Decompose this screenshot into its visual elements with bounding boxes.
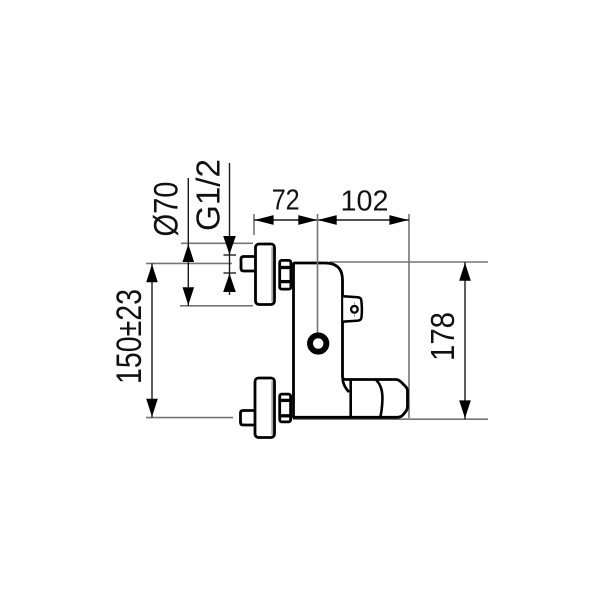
svg-text:150±23: 150±23 — [109, 289, 149, 384]
spout ring left edge — [349, 381, 352, 417]
extension line bottom of escutcheon (O70 bottom reference) — [180, 305, 253, 307]
svg-text:178: 178 — [424, 312, 461, 361]
arrow O70 top — [183, 244, 195, 262]
arrow 178 top — [459, 263, 471, 281]
extension line spout bottom (178 bottom reference) — [293, 418, 488, 420]
top G1/2 pipe connector — [241, 257, 256, 272]
extension line bottom pipe axis (150+-23 bottom reference) — [146, 417, 233, 419]
top escutcheon shading line — [271, 247, 273, 302]
dimension line 150+-23 vertical — [151, 263, 153, 417]
svg-text:102: 102 — [341, 186, 389, 218]
extension line spout end (102 right reference) — [408, 214, 410, 418]
arrow 150+-23 bottom — [146, 399, 158, 417]
svg-text:Ø70: Ø70 — [148, 182, 186, 237]
arrow 150+-23 top — [146, 264, 158, 282]
wall bracket tab — [343, 296, 362, 321]
arrow 102 right — [389, 215, 408, 225]
extension line top pipe axis (150+-23 top reference) — [146, 262, 232, 264]
arrow O70 bottom — [183, 287, 195, 305]
arrow G1/2 top (outside, pointing down) — [223, 236, 236, 255]
body lower-right hook detail — [343, 380, 349, 391]
bottom escutcheon shading line — [271, 381, 273, 435]
bottom escutcheon flange — [255, 378, 275, 438]
arrow 178 bottom — [459, 400, 471, 418]
extension line body axis (72/102 divider, down to screw) — [317, 214, 319, 333]
extension line wall plane (72 left reference) — [253, 214, 255, 235]
svg-text:72: 72 — [272, 185, 300, 217]
spout ring divider curve — [376, 380, 382, 417]
bottom hex nut — [280, 394, 291, 422]
top hex nut — [280, 260, 291, 289]
bottom hex nut chamfer lines — [279, 399, 292, 402]
bracket hole centerline ticks — [353, 302, 355, 305]
extension tick G1/2 top — [224, 254, 237, 256]
dimension line O70 vertical with leader up beside label — [187, 178, 189, 306]
arrow 72 left — [255, 215, 274, 225]
bracket hole — [351, 306, 358, 313]
extension line body top (178 top reference) — [330, 261, 488, 263]
top hex nut chamfer lines — [279, 266, 292, 269]
dimension line 178 vertical — [464, 262, 466, 419]
svg-text:G1/2: G1/2 — [190, 159, 227, 231]
arrow 72 right (bowtie left half) — [298, 215, 317, 225]
top escutcheon flange — [256, 244, 275, 305]
arrow 102 left (bowtie right half) — [318, 215, 337, 225]
dimension line 72/102 horizontal — [254, 219, 409, 221]
extension line top of escutcheon (O70 top reference) — [181, 242, 253, 244]
extension tick G1/2 bottom — [224, 272, 237, 274]
arrow G1/2 bottom (outside, pointing up) — [223, 274, 236, 293]
bottom G1/2 pipe connector — [241, 411, 257, 426]
screw boss circle — [310, 335, 326, 351]
mixer body outline — [294, 263, 408, 417]
dimension line G1/2 vertical with leader beside label — [229, 163, 231, 295]
